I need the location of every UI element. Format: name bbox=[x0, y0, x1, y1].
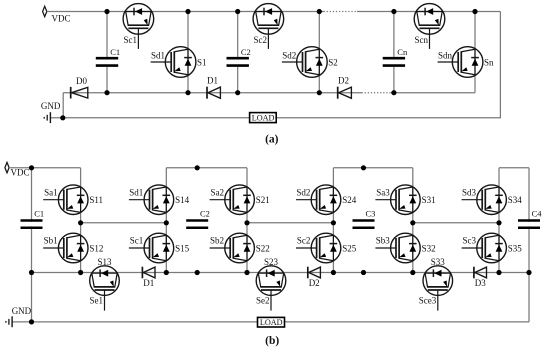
diode D2 bbox=[337, 87, 339, 99]
wire bridge B1 bbox=[81, 222, 167, 224]
capacitor C1 bbox=[106, 12, 108, 57]
node junction column 1-bridge (b) bbox=[78, 220, 83, 225]
node junction column 4-bridge (b) bbox=[331, 220, 336, 225]
capacitor C1 (b) bbox=[19, 222, 44, 227]
svg-text:Sd1: Sd1 bbox=[129, 187, 143, 197]
node junction C1-mid rail (a) bbox=[104, 90, 109, 95]
svg-text:Se1: Se1 bbox=[90, 296, 104, 306]
svg-text:Sdn: Sdn bbox=[438, 50, 453, 60]
svg-text:S23: S23 bbox=[264, 257, 279, 267]
node junction column 5-bridge (b) bbox=[410, 220, 415, 225]
wire top bridge S14-S21 bbox=[166, 167, 247, 169]
svg-text:GND: GND bbox=[41, 101, 61, 111]
svg-text:S11: S11 bbox=[89, 195, 103, 205]
transistor S22 (gate Sb2) bbox=[210, 233, 255, 263]
svg-text:Sc3: Sc3 bbox=[463, 236, 477, 246]
power source VDC bbox=[43, 6, 47, 16]
wire bottom rail (a) bbox=[50, 117, 249, 119]
wire top bridge S24-S31 bbox=[333, 167, 412, 169]
wire top rail (a) left bbox=[47, 11, 324, 13]
svg-text:S15: S15 bbox=[175, 243, 190, 253]
svg-text:S24: S24 bbox=[342, 195, 357, 205]
transistor Sn (gate Sdn) bbox=[474, 12, 476, 93]
svg-text:S1: S1 bbox=[197, 57, 207, 67]
node junction col3-lower rail (b) bbox=[244, 270, 249, 275]
capacitor C4 (b) bbox=[517, 222, 542, 227]
svg-text:Sd3: Sd3 bbox=[462, 187, 477, 197]
wire column 2 (b) bbox=[165, 168, 167, 273]
wire C4 leg (b) bbox=[528, 168, 530, 273]
transistor S21 (gate Sa2) bbox=[210, 185, 255, 215]
svg-text:S25: S25 bbox=[342, 243, 357, 253]
node junction C1-top rail (b) bbox=[29, 165, 34, 170]
svg-text:C3: C3 bbox=[366, 208, 376, 218]
node junction col5-lower rail (b) bbox=[410, 270, 415, 275]
svg-text:Scn: Scn bbox=[415, 35, 429, 45]
node junction col6-lower rail (b) bbox=[496, 270, 501, 275]
svg-text:VDC: VDC bbox=[11, 168, 30, 178]
svg-text:Sa2: Sa2 bbox=[211, 187, 225, 197]
svg-text:Cn: Cn bbox=[397, 47, 408, 57]
svg-text:D3: D3 bbox=[475, 278, 486, 288]
transistor S11 (gate Sa1) bbox=[43, 185, 88, 215]
capacitor C3 (b) bbox=[351, 222, 376, 227]
node GND junction (b) bbox=[29, 319, 34, 324]
transistor S15 (gate Sc1) bbox=[129, 233, 174, 263]
svg-text:GND: GND bbox=[12, 306, 32, 316]
svg-text:Sb1: Sb1 bbox=[44, 236, 58, 246]
node junction C3-top rail (b) bbox=[361, 165, 366, 170]
node junction S1-mid rail (a) bbox=[185, 90, 190, 95]
wire column 1 (b) bbox=[80, 168, 82, 273]
transistor S35 (gate Sc3) bbox=[462, 233, 507, 263]
transistor S24 (gate Sd2) bbox=[296, 185, 341, 215]
node junction col2-lower rail (b) bbox=[164, 270, 169, 275]
svg-text:S34: S34 bbox=[508, 195, 523, 205]
svg-text:Sn: Sn bbox=[484, 57, 494, 67]
node junction Cn-mid rail (a) bbox=[391, 90, 396, 95]
node junction S1-top rail (a) bbox=[185, 9, 190, 14]
transistor S33 (gate Sce3) bbox=[423, 266, 453, 311]
svg-text:(a): (a) bbox=[265, 134, 279, 146]
capacitor C2 (b) bbox=[185, 222, 210, 227]
transistor S12 (gate Sb1) bbox=[43, 233, 88, 263]
svg-text:S35: S35 bbox=[508, 243, 523, 253]
node junction C2-mid rail (a) bbox=[235, 90, 240, 95]
capacitor C2 bbox=[237, 12, 239, 57]
svg-text:Se2: Se2 bbox=[256, 296, 270, 306]
node junction S2-top rail (a) bbox=[317, 9, 322, 14]
wire top rail (a) dotted bbox=[324, 11, 358, 13]
svg-text:S21: S21 bbox=[256, 195, 270, 205]
node junction C1-top rail (a) bbox=[104, 9, 109, 14]
wire column 5 (b) bbox=[412, 168, 414, 273]
transistor S1 (gate Sd1) bbox=[187, 12, 189, 93]
transistor S31 (gate Sa3) bbox=[375, 185, 420, 215]
svg-text:S33: S33 bbox=[431, 257, 446, 267]
svg-text:S2: S2 bbox=[328, 57, 338, 67]
wire gnd rail left (b) bbox=[12, 321, 257, 323]
node junction C2-top rail (b) bbox=[195, 165, 200, 170]
svg-text:Sc1: Sc1 bbox=[130, 236, 144, 246]
svg-text:Sc2: Sc2 bbox=[297, 236, 311, 246]
svg-text:(b): (b) bbox=[265, 335, 279, 347]
svg-text:C1: C1 bbox=[110, 47, 120, 57]
svg-text:D2: D2 bbox=[309, 278, 320, 288]
wire mid-to-bottom left (a) bbox=[62, 93, 64, 118]
node junction C3-lower rail (b) bbox=[361, 270, 366, 275]
wire mid rail (a) right bbox=[391, 92, 475, 94]
node junction Cn-top rail (a) bbox=[391, 9, 396, 14]
node junction column 2-bridge (b) bbox=[164, 220, 169, 225]
diode D1 (b) bbox=[141, 267, 143, 279]
wire top right S34-C4 bbox=[499, 167, 529, 169]
svg-text:Sc2: Sc2 bbox=[254, 35, 268, 45]
wire C1 leg (b) bbox=[31, 168, 33, 322]
svg-text:S22: S22 bbox=[256, 243, 270, 253]
svg-text:S31: S31 bbox=[422, 195, 436, 205]
svg-text:D1: D1 bbox=[207, 76, 218, 86]
node junction S2-mid rail (a) bbox=[317, 90, 322, 95]
load box (b) bbox=[258, 317, 285, 327]
wire mid rail (a) dotted bbox=[362, 92, 392, 94]
svg-text:Sce3: Sce3 bbox=[419, 296, 437, 306]
svg-text:VDC: VDC bbox=[52, 13, 71, 23]
svg-text:D2: D2 bbox=[338, 76, 349, 86]
svg-text:S14: S14 bbox=[175, 195, 190, 205]
svg-text:C4: C4 bbox=[532, 208, 543, 218]
diode D1 bbox=[206, 87, 208, 99]
transistor S25 (gate Sc2) bbox=[296, 233, 341, 263]
wire right edge (b) bbox=[528, 273, 530, 322]
svg-text:C2: C2 bbox=[241, 47, 251, 57]
wire column 6 (b) bbox=[498, 168, 500, 273]
wire bridge B3 bbox=[413, 222, 499, 224]
wire top rail (a) right bbox=[357, 11, 500, 13]
transistor S13 (gate Se1) bbox=[90, 266, 120, 311]
wire VDC rail (b) bbox=[9, 167, 81, 169]
transistor S32 (gate Sb3) bbox=[375, 233, 420, 263]
node junction col1-lower rail (b) bbox=[78, 270, 83, 275]
node GND junction (a) bbox=[60, 115, 65, 120]
wire column 4 (b) bbox=[332, 168, 334, 273]
wire lower rail (b) bbox=[32, 272, 530, 274]
transistor S34 (gate Sd3) bbox=[462, 185, 507, 215]
ground GND (b) bbox=[11, 316, 13, 327]
node junction column 3-bridge (b) bbox=[244, 220, 249, 225]
load box (a) bbox=[250, 113, 277, 123]
svg-text:Sd1: Sd1 bbox=[151, 50, 165, 60]
wire right edge (a) bbox=[276, 12, 500, 118]
node junction C2-top rail (a) bbox=[235, 9, 240, 14]
svg-text:Sa3: Sa3 bbox=[376, 187, 390, 197]
svg-text:D1: D1 bbox=[143, 278, 154, 288]
svg-text:Sd2: Sd2 bbox=[296, 187, 310, 197]
svg-text:Sb2: Sb2 bbox=[210, 236, 224, 246]
transistor Sc1 bbox=[123, 4, 154, 49]
transistor S23 (gate Se2) bbox=[256, 266, 286, 311]
transistor Scn bbox=[414, 4, 445, 49]
node junction column 6-bridge (b) bbox=[496, 220, 501, 225]
power source VDC (b) bbox=[5, 162, 9, 172]
capacitor Cn bbox=[393, 12, 395, 57]
svg-text:C1: C1 bbox=[34, 208, 44, 218]
svg-text:S32: S32 bbox=[422, 243, 436, 253]
svg-text:LOAD: LOAD bbox=[252, 114, 275, 123]
node junction col4-lower rail (b) bbox=[331, 270, 336, 275]
diode D3 (b) bbox=[473, 267, 475, 279]
svg-text:LOAD: LOAD bbox=[260, 318, 283, 327]
svg-text:Sa1: Sa1 bbox=[44, 187, 58, 197]
transistor S2 (gate Sd2) bbox=[318, 12, 320, 93]
svg-text:C2: C2 bbox=[200, 208, 210, 218]
transistor S14 (gate Sd1) bbox=[129, 185, 174, 215]
svg-text:S12: S12 bbox=[89, 243, 103, 253]
transistor Sc2 bbox=[253, 4, 284, 49]
diode D0 bbox=[70, 87, 72, 99]
node junction C2-lower rail (b) bbox=[195, 270, 200, 275]
svg-text:Sc1: Sc1 bbox=[124, 35, 138, 45]
wire column 3 (b) bbox=[246, 168, 248, 273]
svg-text:S13: S13 bbox=[97, 257, 112, 267]
wire gnd rail right (b) bbox=[285, 321, 530, 323]
node junction C1-lower rail (b) bbox=[29, 270, 34, 275]
ground GND (a) bbox=[49, 112, 51, 123]
wire bridge B2 bbox=[247, 222, 333, 224]
diode D2 (b) bbox=[307, 267, 309, 279]
wire mid rail (a) bbox=[63, 92, 361, 94]
node junction Sn-top rail (a) bbox=[472, 9, 477, 14]
svg-text:Sd2: Sd2 bbox=[282, 50, 296, 60]
svg-text:D0: D0 bbox=[76, 76, 87, 86]
svg-text:Sb3: Sb3 bbox=[376, 236, 391, 246]
node junction C4-lower rail (b) bbox=[526, 270, 531, 275]
